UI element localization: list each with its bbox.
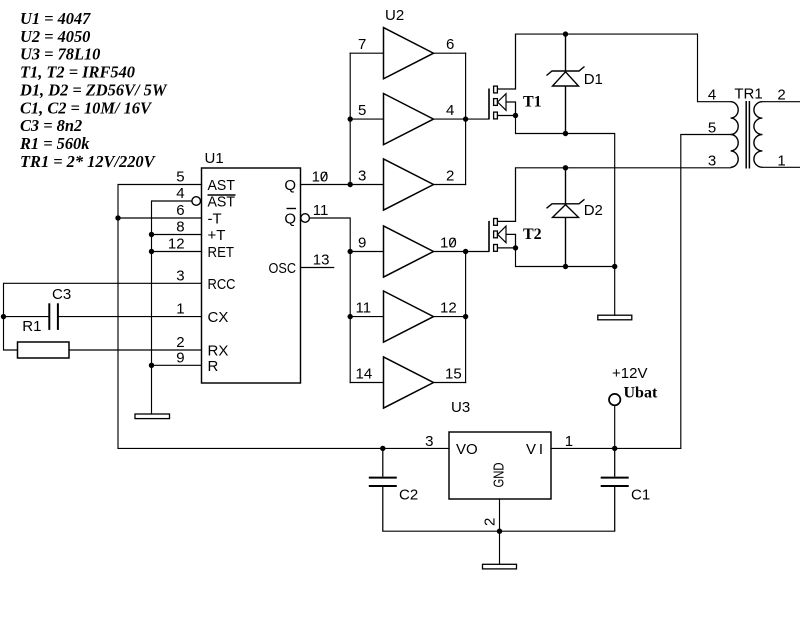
resistor R1 body [18, 342, 70, 358]
capacitor C2 plates [369, 478, 397, 486]
wire Qbar-side output rail [465, 252, 467, 383]
buffer gate 5 of U2 [384, 291, 434, 342]
junction D1 anode rail [563, 131, 568, 136]
junction C1 / +12V rail [612, 446, 617, 451]
U1 pin4 inversion bubble [192, 197, 201, 206]
wire Q pin10 to buffer rail [301, 184, 351, 186]
wire TR1 pin2 [762, 101, 800, 103]
capacitor C3 plates [49, 303, 58, 330]
svg-text:4: 4 [176, 185, 184, 202]
svg-text:5: 5 [176, 169, 184, 186]
svg-text:AST: AST [208, 177, 236, 194]
wire GND pin lead of U3 [499, 499, 501, 531]
svg-text:11: 11 [313, 202, 329, 219]
svg-text:C3 = 8n2: C3 = 8n2 [20, 116, 82, 135]
svg-text:14: 14 [356, 366, 373, 383]
svg-text:6: 6 [176, 202, 184, 219]
svg-text:U2 = 4050: U2 = 4050 [20, 27, 90, 46]
wire bottom ground lead [499, 531, 501, 564]
svg-text:C1: C1 [631, 487, 650, 504]
svg-text:2: 2 [482, 518, 499, 526]
svg-text:6: 6 [446, 36, 454, 53]
svg-text:U3 = 78L10: U3 = 78L10 [20, 45, 100, 64]
wire TR1 pin5 to +12V rail [681, 135, 731, 449]
wire RX pin2 to R1 [69, 349, 202, 351]
wire C3 left plate to left rail [4, 316, 49, 318]
svg-text:U1 = 4047: U1 = 4047 [20, 9, 91, 28]
svg-text:GND: GND [491, 462, 508, 487]
svg-text:VI: VI [526, 441, 543, 458]
junction C3 / RCC rail [1, 314, 6, 319]
wire VO net: U1 pin5 AST left, down, to regulator VO [118, 185, 449, 449]
buffer pin number 10 with slashed zero [440, 235, 457, 252]
diode D1 zener [547, 34, 585, 133]
junction buffer4 output / T2 gate [463, 249, 468, 254]
transformer TR1 secondary winding [754, 102, 763, 168]
U1 pin number 10 with slashed zero [312, 169, 329, 186]
U1 pin name Q-bar with overline [284, 209, 296, 228]
svg-text:3: 3 [708, 152, 716, 169]
wire buffer2 output stub [434, 118, 466, 120]
svg-text:+12V: +12V [612, 365, 647, 382]
wire Qbar pin11 to lower input rail [310, 218, 351, 383]
svg-text:+T: +T [208, 227, 226, 244]
junction buffer4 input rail [348, 249, 353, 254]
buffer gate 6 of U2 [384, 357, 434, 408]
junction R pin9 / gnd rail [149, 363, 154, 368]
svg-text:R: R [208, 358, 219, 375]
wire -T pin6 to VO rail [118, 217, 202, 219]
svg-text:1: 1 [777, 152, 785, 169]
wire RET pin12 [152, 251, 202, 253]
C1 leads [614, 448, 616, 531]
svg-text:3: 3 [176, 267, 184, 284]
svg-text:D1, D2 = ZD56V/ 5W: D1, D2 = ZD56V/ 5W [19, 80, 168, 99]
junction buffer5 output rail [463, 314, 468, 319]
wire buffer1 output stub [434, 52, 466, 54]
svg-text:9: 9 [358, 235, 366, 252]
svg-text:15: 15 [445, 366, 462, 383]
wire VI rail [551, 447, 681, 449]
svg-text:C1, C2 = 10M/ 16V: C1, C2 = 10M/ 16V [20, 98, 153, 117]
svg-text:1: 1 [176, 301, 184, 318]
+12V supply terminal circle [609, 394, 620, 405]
transformer TR1 core [746, 101, 749, 169]
svg-text:T1, T2 = IRF540: T1, T2 = IRF540 [20, 63, 135, 82]
svg-text:12: 12 [168, 236, 185, 253]
svg-text:12: 12 [440, 300, 457, 317]
svg-text:R1: R1 [22, 318, 41, 335]
svg-text:2: 2 [446, 168, 454, 185]
svg-text:13: 13 [313, 252, 330, 269]
svg-text:5: 5 [708, 120, 716, 137]
svg-text:CX: CX [208, 309, 229, 326]
wire buffer6 input stub [350, 382, 383, 384]
ground symbol bottom (regulator) [483, 564, 517, 569]
wire buffer1 input stub [350, 52, 383, 54]
wire RCC pin3 to left rail down to R1 [4, 283, 202, 350]
wire Q-side output rail [465, 53, 467, 184]
wire buffer2 input stub [350, 118, 383, 120]
svg-text:R1 = 560k: R1 = 560k [19, 134, 90, 153]
junction buffer5 input rail [348, 314, 353, 319]
svg-text:3: 3 [358, 168, 366, 185]
wire buffer5 input stub [350, 316, 383, 318]
buffer gate 3 of U2 [384, 159, 434, 210]
U1 pin name AST-bar with overline [208, 194, 236, 211]
op-amp U1 4047 body [202, 168, 301, 383]
svg-text:D1: D1 [584, 71, 603, 88]
transistor T2 IRF540 [489, 168, 516, 252]
svg-text:C2: C2 [399, 487, 418, 504]
svg-text:TR1: TR1 [734, 86, 762, 103]
wire T1 source down to ground rail [516, 116, 615, 316]
junction Q / buffer3 input [348, 182, 353, 187]
wire TR1 pin3 line to T2 drain [516, 167, 731, 169]
transformer TR1 primary winding [731, 102, 739, 168]
junction T1 source [513, 113, 518, 118]
svg-text:T2: T2 [523, 226, 542, 243]
diode D2 zener [547, 168, 585, 267]
buffer gate 2 of U2 [384, 94, 434, 145]
svg-text:Q: Q [284, 211, 296, 228]
svg-text:AST: AST [208, 194, 236, 211]
svg-text:-T: -T [208, 211, 222, 228]
wire buffer6 output stub [434, 382, 466, 384]
svg-text:VO: VO [456, 441, 478, 458]
wire R pin9 [152, 364, 202, 366]
svg-text:11: 11 [356, 300, 372, 317]
wire buffer3 output stub [434, 184, 466, 186]
svg-text:RET: RET [208, 244, 235, 261]
buffer gate 4 of U2 [384, 226, 434, 277]
svg-text:4: 4 [446, 102, 454, 119]
junction T2 source [513, 245, 518, 250]
svg-text:5: 5 [358, 102, 366, 119]
svg-text:3: 3 [425, 433, 433, 450]
svg-text:U1: U1 [205, 150, 224, 167]
wire pin4 AST-bar to ground rail [152, 201, 192, 414]
svg-text:OSC: OSC [269, 260, 297, 277]
svg-text:C3: C3 [52, 286, 71, 303]
svg-text:1: 1 [565, 433, 573, 450]
wire T1 gate wire [466, 118, 489, 120]
wire T1 drain to top rail to TR1 pin4 [516, 34, 731, 102]
svg-text:T1: T1 [523, 94, 542, 111]
junction T2 source rail / ground line [612, 264, 617, 269]
junction buffer2 input rail [348, 116, 353, 121]
svg-text:TR1 = 2* 12V/220V: TR1 = 2* 12V/220V [20, 152, 157, 171]
svg-text:7: 7 [358, 36, 366, 53]
U1 Qbar inversion bubble [301, 214, 310, 223]
wire T2 gate wire [466, 251, 489, 253]
wire OSC pin13 stub [301, 267, 334, 269]
parts list text block [19, 9, 168, 171]
wire buffer4 output stub [434, 251, 466, 253]
C2 leads [382, 448, 384, 531]
svg-text:10: 10 [440, 235, 457, 252]
svg-text:4: 4 [708, 87, 716, 104]
junction -T / VO rail [115, 215, 120, 220]
wire buffer3 input stub [350, 184, 383, 186]
buffer gate 1 of U2 [384, 28, 434, 79]
capacitor C1 plates [601, 478, 629, 486]
junction RET / gnd rail [149, 249, 154, 254]
wire Q-side input rail [349, 53, 351, 184]
transistor T1 IRF540 [489, 34, 516, 119]
svg-text:D2: D2 [584, 202, 603, 219]
wire +T pin8 [152, 234, 202, 236]
svg-text:2: 2 [777, 87, 785, 104]
wire bottom ground rail [383, 530, 615, 532]
svg-text:RCC: RCC [208, 276, 236, 293]
junction U3 GND / bottom rail [497, 529, 502, 534]
wire +12V terminal lead [614, 405, 616, 448]
ground symbol under U1 [135, 414, 170, 419]
junction +T / gnd rail [149, 232, 154, 237]
svg-text:10: 10 [312, 169, 329, 186]
svg-text:9: 9 [176, 349, 184, 366]
wire buffer4 input stub [350, 251, 383, 253]
junction D2 cathode / TR1 pin3 line [563, 165, 568, 170]
junction buffer2 output / T1 gate [463, 116, 468, 121]
svg-text:U2: U2 [385, 7, 404, 24]
svg-text:Ubat: Ubat [624, 385, 658, 402]
ground symbol right (T1/T2 source) [598, 315, 632, 320]
svg-text:U3: U3 [451, 399, 470, 416]
wire CX pin1 to C3 right plate [59, 316, 202, 318]
svg-text:Q: Q [284, 177, 296, 194]
junction D2 anode rail [563, 264, 568, 269]
svg-text:8: 8 [176, 219, 184, 236]
voltage regulator U3 78L10 body [449, 432, 551, 499]
wire T2 source rail [516, 248, 615, 267]
wire buffer5 output stub [434, 316, 466, 318]
junction D1 cathode / top rail [563, 31, 568, 36]
junction C2 / VO rail [380, 446, 385, 451]
wire TR1 pin1 [762, 166, 800, 168]
